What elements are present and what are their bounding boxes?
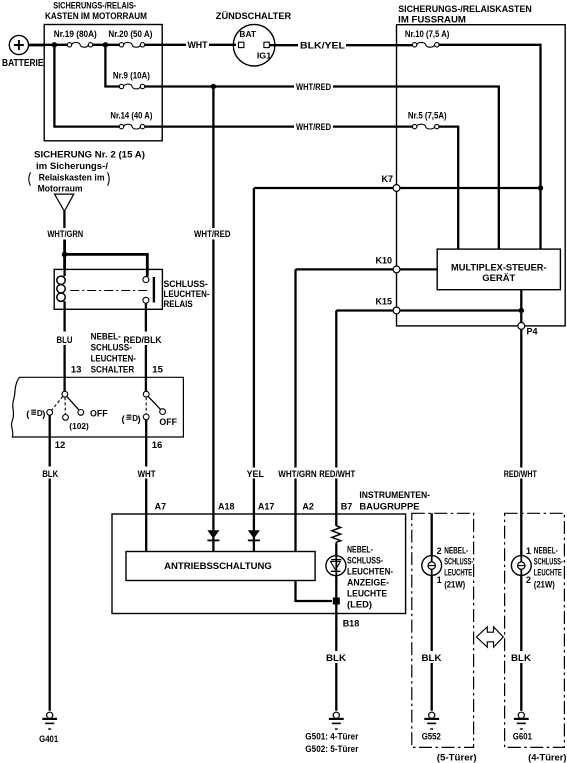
main bus wire bbox=[44, 44, 186, 46]
wire WHT/RED vertical to A18 bbox=[212, 87, 214, 229]
diode D1 on A18 bbox=[207, 530, 219, 540]
wire A18 into drive circuit bbox=[212, 514, 214, 552]
svg-text:WHT/RED: WHT/RED bbox=[296, 82, 331, 92]
right switch dashed blade bbox=[145, 397, 147, 414]
wire Nr.14 row WHT/RED bbox=[145, 125, 295, 127]
relay contact bbox=[143, 277, 154, 304]
svg-text:SCHLUSS-: SCHLUSS- bbox=[444, 557, 473, 567]
svg-text:(102): (102) bbox=[69, 422, 89, 431]
svg-text:K7: K7 bbox=[381, 174, 393, 184]
left switch solid blade to c bbox=[67, 396, 79, 410]
junction dot K15 bbox=[519, 308, 524, 313]
node K10 row bbox=[296, 268, 438, 270]
svg-text:Nr.19 (80A): Nr.19 (80A) bbox=[54, 29, 97, 39]
svg-text:LEUCHTE: LEUCHTE bbox=[347, 589, 387, 600]
svg-text:1: 1 bbox=[437, 575, 442, 585]
fuse Nr.5 (7,5A) bbox=[408, 111, 447, 129]
svg-text:SCHLUSS-: SCHLUSS- bbox=[347, 556, 383, 567]
svg-text:NEBEL-: NEBEL- bbox=[91, 331, 121, 342]
svg-text:NEBEL-: NEBEL- bbox=[347, 545, 373, 556]
4-door lamp wire BLK bbox=[520, 575, 522, 651]
svg-text:): ) bbox=[42, 409, 45, 420]
node K10 bbox=[393, 266, 400, 273]
left switch contact c OFF bbox=[78, 410, 84, 416]
left switch contact b bbox=[63, 415, 69, 421]
svg-text:A17: A17 bbox=[258, 502, 275, 512]
wire fuse Nr.5 to multiplex bbox=[439, 127, 458, 250]
left switch dashed blade to a bbox=[52, 397, 63, 411]
svg-text:WHT/RED: WHT/RED bbox=[296, 122, 331, 132]
svg-text:GERÄT: GERÄT bbox=[482, 273, 515, 284]
wire A17 into drive circuit bbox=[253, 514, 255, 552]
svg-text:SICHERUNGS-/RELAISKASTEN: SICHERUNGS-/RELAISKASTEN bbox=[398, 4, 532, 15]
svg-text:IM FUSSRAUM: IM FUSSRAUM bbox=[398, 14, 466, 25]
svg-text:LEUCHTE: LEUCHTE bbox=[444, 568, 472, 578]
svg-text:WHT/GRN: WHT/GRN bbox=[278, 469, 316, 479]
svg-text:B18: B18 bbox=[343, 619, 360, 629]
wire pin 12 bbox=[49, 415, 51, 437]
svg-text:16: 16 bbox=[152, 440, 163, 451]
wire B7 resistor LED chain bbox=[335, 514, 337, 526]
ground G601 bbox=[513, 712, 532, 741]
fuse Nr.10 (7,5A) bbox=[405, 29, 450, 47]
right switch icon bbox=[122, 414, 141, 425]
instrument cluster box bbox=[112, 490, 430, 614]
wire RED/WHT K15 to B7 bbox=[335, 311, 337, 468]
svg-text:RED/WHT: RED/WHT bbox=[504, 469, 537, 479]
svg-text:BLK/YEL: BLK/YEL bbox=[300, 41, 346, 51]
svg-text:15: 15 bbox=[152, 365, 163, 376]
svg-text:Relaiskasten im: Relaiskasten im bbox=[39, 173, 105, 184]
svg-text:A18: A18 bbox=[218, 502, 235, 512]
resistor bbox=[332, 526, 341, 544]
5-door lamp wire BLK bbox=[431, 575, 433, 651]
wire junction B down to fuse Nr.9 bbox=[105, 45, 119, 87]
5-door bulb bbox=[422, 556, 442, 576]
wire BLK/YEL from ignition bbox=[269, 44, 298, 46]
junction dot A bbox=[52, 42, 57, 47]
fog light switch box bbox=[12, 377, 184, 437]
fuse Nr.2 triangle symbol bbox=[55, 194, 74, 211]
svg-text:RED/WHT: RED/WHT bbox=[319, 469, 355, 479]
svg-text:BLK: BLK bbox=[511, 653, 532, 663]
wire WHT to A7 bbox=[145, 437, 147, 467]
right switch solid blade bbox=[148, 396, 160, 409]
wire BLK to G401 bbox=[49, 437, 51, 467]
relay coil bbox=[63, 269, 65, 309]
junction square A2/LED bbox=[333, 598, 340, 605]
node P4 bbox=[518, 323, 525, 330]
junction dot C on Nr.9 row bbox=[211, 84, 216, 89]
drive circuit box ANTRIEBSSCHALTUNG bbox=[126, 552, 315, 581]
left switch common 13 bbox=[62, 391, 68, 397]
svg-text:RELAIS: RELAIS bbox=[164, 299, 193, 310]
svg-text:A7: A7 bbox=[155, 502, 167, 512]
LED label bbox=[347, 545, 393, 611]
svg-text:Motorraum: Motorraum bbox=[38, 183, 83, 194]
5-door dashed box bbox=[412, 513, 474, 747]
wire battery to fuse box bbox=[29, 44, 46, 47]
svg-text:WHT: WHT bbox=[188, 40, 208, 50]
wire pin 16 bbox=[145, 420, 147, 437]
node K15 row bbox=[336, 309, 521, 311]
fuse Nr.20 (50A) bbox=[108, 29, 152, 47]
diode D2 on A17 bbox=[248, 530, 260, 540]
svg-text:BLK: BLK bbox=[326, 653, 347, 663]
svg-text:G401: G401 bbox=[39, 734, 58, 744]
svg-text:Nr.10 (7,5 A): Nr.10 (7,5 A) bbox=[405, 29, 450, 39]
right switch contact OFF bbox=[160, 409, 166, 415]
svg-text:Nr.9 (10A): Nr.9 (10A) bbox=[113, 70, 150, 80]
junction dot B bbox=[103, 42, 108, 47]
svg-text:ANTRIEBSSCHALTUNG: ANTRIEBSSCHALTUNG bbox=[164, 561, 272, 572]
fog light switch label bbox=[91, 331, 136, 375]
relay box SCHLUSSLEUCHTEN-RELAIS bbox=[54, 269, 209, 310]
svg-text:2: 2 bbox=[526, 575, 531, 585]
left switch icon bbox=[26, 409, 45, 420]
svg-text:(21W): (21W) bbox=[444, 580, 465, 590]
svg-text:ZÜNDSCHALTER: ZÜNDSCHALTER bbox=[216, 11, 292, 22]
svg-text:BAUGRUPPE: BAUGRUPPE bbox=[359, 502, 419, 513]
wire drive circuit to LED cathode bbox=[296, 581, 333, 602]
svg-text:ANZEIGE-: ANZEIGE- bbox=[347, 578, 389, 589]
wire B18 BLK to G501 bbox=[335, 614, 337, 652]
wire fuse Nr.10 to K7 bbox=[439, 45, 541, 249]
4-door lamp label bbox=[534, 546, 563, 590]
svg-text:LEUCHTEN-: LEUCHTEN- bbox=[91, 354, 136, 365]
svg-text:WHT/GRN: WHT/GRN bbox=[47, 229, 83, 239]
wire WHT/GRN K10 to A2 bbox=[294, 269, 296, 467]
wire WHT/GRN relay feed bbox=[63, 211, 65, 228]
svg-text:WHT: WHT bbox=[138, 469, 156, 479]
svg-text:YEL: YEL bbox=[247, 469, 265, 479]
svg-text:NEBEL-: NEBEL- bbox=[534, 546, 558, 556]
svg-text:K10: K10 bbox=[375, 256, 392, 266]
svg-text:G601: G601 bbox=[513, 732, 532, 742]
svg-text:im Sicherungs-/: im Sicherungs-/ bbox=[36, 161, 108, 172]
svg-text:BLK: BLK bbox=[422, 653, 443, 663]
multiplex control unit bbox=[437, 249, 560, 290]
wire RED/WHT P4 to 4-door lamp bbox=[520, 329, 522, 467]
svg-text:G502: 5-Türer: G502: 5-Türer bbox=[305, 744, 359, 754]
wire multiplex to P4 bbox=[520, 290, 522, 326]
svg-text:13: 13 bbox=[71, 365, 82, 376]
wire RED/BLK relay to switch bbox=[145, 303, 147, 331]
svg-text:INSTRUMENTEN-: INSTRUMENTEN- bbox=[359, 490, 430, 501]
svg-text:OFF: OFF bbox=[90, 409, 108, 420]
relay dash-dot line bbox=[70, 290, 149, 292]
wire Nr.9 row WHT/RED bbox=[145, 85, 295, 87]
svg-text:B7: B7 bbox=[341, 502, 353, 512]
wire LED to B18 bbox=[335, 576, 337, 614]
ground G401 bbox=[39, 712, 58, 744]
svg-text:SCHLUSS-: SCHLUSS- bbox=[534, 557, 563, 567]
fuse/relay box engine compartment bbox=[44, 1, 162, 141]
svg-text:12: 12 bbox=[55, 440, 66, 451]
svg-text:BAT: BAT bbox=[239, 29, 256, 39]
svg-text:KASTEN IM MOTORRAUM: KASTEN IM MOTORRAUM bbox=[45, 11, 147, 22]
wire branch to relay contact bbox=[65, 254, 148, 276]
svg-text:1: 1 bbox=[526, 546, 531, 556]
svg-text:(5-Türer): (5-Türer) bbox=[437, 753, 477, 763]
junction dot K7-Nr.10 bbox=[538, 185, 543, 190]
svg-text:OFF: OFF bbox=[159, 417, 177, 428]
LED indicator lamp bbox=[326, 556, 346, 576]
svg-text:BATTERIE: BATTERIE bbox=[2, 57, 44, 69]
junction dot relay feed bbox=[62, 252, 68, 258]
equivalence arrow bbox=[477, 627, 504, 647]
svg-text:LEUCHTE: LEUCHTE bbox=[534, 568, 562, 578]
svg-text:A2: A2 bbox=[302, 502, 314, 512]
svg-text:BLU: BLU bbox=[57, 335, 73, 345]
left switch contact a bbox=[47, 410, 53, 416]
fuse Nr.19 (80A) bbox=[54, 29, 97, 47]
wire junction A down to fuse Nr.14 bbox=[54, 45, 119, 127]
node K15 bbox=[393, 307, 400, 314]
svg-text:LEUCHTEN-: LEUCHTEN- bbox=[347, 567, 393, 578]
wire YEL K7 to A17 bbox=[253, 188, 255, 468]
left switch dashed blade to b bbox=[64, 397, 66, 414]
fuse/relay box footwell bbox=[397, 4, 566, 326]
node K7 row bbox=[254, 187, 541, 189]
svg-text:(21W): (21W) bbox=[534, 580, 555, 590]
svg-text:(4-Türer): (4-Türer) bbox=[528, 753, 566, 763]
right switch contact mid bbox=[143, 414, 149, 420]
wire A2 to LED cathode bbox=[294, 514, 296, 552]
svg-text:Nr.5 (7,5A): Nr.5 (7,5A) bbox=[408, 111, 447, 121]
svg-text:SCHALTER: SCHALTER bbox=[91, 365, 135, 376]
node K7 bbox=[393, 185, 400, 192]
svg-text:BLK: BLK bbox=[42, 469, 58, 479]
wire BLU relay to switch bbox=[63, 309, 65, 331]
svg-text:): ) bbox=[138, 414, 141, 425]
5-door lamp wire top bbox=[431, 513, 433, 555]
svg-text:NEBEL-: NEBEL- bbox=[444, 546, 468, 556]
svg-text:MULTIPLEX-STEUER-: MULTIPLEX-STEUER- bbox=[451, 262, 547, 273]
svg-text:G501: 4-Türer: G501: 4-Türer bbox=[305, 732, 359, 742]
wire A7 into drive circuit bbox=[145, 514, 147, 552]
svg-text:SCHLUSS-: SCHLUSS- bbox=[91, 342, 132, 353]
svg-text:2: 2 bbox=[437, 546, 442, 556]
ground G501 bbox=[305, 712, 359, 754]
right switch common 15 bbox=[143, 391, 149, 397]
5-door lamp label bbox=[444, 546, 473, 590]
svg-text:Nr.14 (40 A): Nr.14 (40 A) bbox=[110, 111, 152, 121]
svg-text:(LED): (LED) bbox=[347, 600, 372, 611]
svg-text:G552: G552 bbox=[422, 732, 441, 742]
svg-text:Nr.20 (50 A): Nr.20 (50 A) bbox=[108, 29, 152, 39]
svg-text:SICHERUNGS-/RELAIS-: SICHERUNGS-/RELAIS- bbox=[53, 1, 136, 12]
fuse Nr.2 note text bbox=[29, 149, 145, 194]
svg-text:P4: P4 bbox=[527, 327, 538, 337]
svg-text:SICHERUNG Nr. 2 (15 A): SICHERUNG Nr. 2 (15 A) bbox=[34, 149, 145, 160]
ignition switch bbox=[216, 11, 292, 66]
svg-text:K15: K15 bbox=[375, 297, 392, 307]
svg-text:WHT/RED: WHT/RED bbox=[194, 229, 231, 239]
svg-text:IG1: IG1 bbox=[257, 51, 272, 61]
fuse Nr.9 (10A) bbox=[113, 70, 150, 89]
4-door dashed box bbox=[505, 513, 565, 747]
4-door bulb bbox=[511, 556, 531, 576]
ground G552 bbox=[422, 712, 441, 741]
battery bbox=[2, 35, 44, 69]
fuse Nr.14 (40A) bbox=[110, 111, 152, 129]
